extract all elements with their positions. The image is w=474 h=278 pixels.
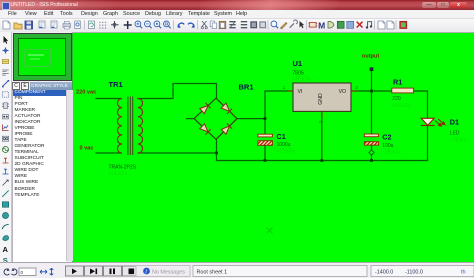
wire C2 branch — [371, 91, 373, 161]
voltage regulator U1 body — [293, 83, 351, 111]
wire U1 GND pin to rail — [321, 117, 323, 161]
toolbar — [0, 19, 474, 33]
svg-text:TR1: TR1 — [109, 80, 123, 89]
sheet marker x — [267, 228, 273, 234]
svg-text:output: output — [362, 54, 380, 60]
node junction C1 top — [264, 117, 267, 120]
svg-text:1000u: 1000u — [277, 142, 291, 148]
svg-text:BR1: BR1 — [239, 82, 254, 91]
svg-text:220 vac: 220 vac — [76, 90, 96, 96]
svg-text:TRAN-2P2S: TRAN-2P2S — [109, 165, 137, 171]
menu bar — [0, 10, 474, 19]
svg-text:No Messages: No Messages — [152, 270, 185, 276]
svg-text:R1: R1 — [393, 77, 402, 86]
svg-text:LED: LED — [450, 130, 460, 136]
wire output branch — [371, 71, 373, 91]
svg-text:C2: C2 — [382, 132, 391, 141]
svg-text:GND: GND — [318, 93, 324, 105]
node junction output / C2 — [370, 90, 373, 93]
svg-text:<TEXT>: <TEXT> — [292, 77, 311, 83]
resistor R1 — [392, 88, 414, 93]
title bar — [0, 0, 474, 10]
status bar — [0, 262, 474, 278]
svg-text:D1: D1 — [450, 118, 459, 127]
pin stub U1 GND — [321, 112, 323, 117]
pin stub U1 VI — [288, 90, 293, 92]
wire C1 node up to U1 VI — [265, 91, 288, 119]
svg-text:<TEXT>: <TEXT> — [277, 148, 296, 154]
node junction U1 GND rail — [320, 159, 323, 162]
terminal output marker — [370, 67, 374, 71]
wire ground rail — [217, 160, 428, 162]
svg-text:<TEXT>: <TEXT> — [382, 149, 401, 155]
svg-text:1: 1 — [283, 85, 286, 90]
svg-text:2: 2 — [319, 120, 324, 123]
svg-text:220: 220 — [392, 96, 401, 102]
svg-text:3: 3 — [355, 85, 358, 90]
transformer TR1 — [117, 97, 142, 156]
svg-text:VO: VO — [339, 89, 347, 95]
capacitor C2 — [364, 134, 378, 145]
capacitor C1 — [258, 134, 273, 145]
svg-text:<TEXT>: <TEXT> — [392, 103, 411, 109]
svg-text:100u: 100u — [382, 143, 393, 149]
svg-text:C1: C1 — [277, 132, 286, 141]
svg-text:<TEXT>: <TEXT> — [450, 137, 469, 143]
wire bridge left stub — [187, 118, 195, 120]
wire bridge right to C1 node — [238, 118, 266, 120]
node junction transformer bottom / bridge — [215, 152, 218, 155]
wire 220vac lead — [96, 98, 121, 100]
node junction C1 bottom — [264, 159, 267, 162]
diode BR1 bottom-right — [221, 123, 232, 134]
diode BR1 top-left — [200, 103, 211, 114]
left panel — [12, 32, 72, 262]
svg-text:U1: U1 — [293, 59, 303, 68]
LED D1 — [421, 118, 445, 126]
svg-text:A: A — [3, 245, 9, 254]
wire U1 VO to R1 — [356, 90, 392, 92]
node junction C2 bottom — [370, 159, 373, 162]
canvas — [73, 32, 474, 262]
wire 0vac lead — [96, 152, 121, 154]
svg-text:0: 0 — [21, 270, 24, 276]
wire secondary bottom — [138, 152, 217, 154]
wire secondary top to bridge top — [138, 84, 217, 99]
svg-text:M: M — [318, 21, 325, 31]
bridge rectifier BR1 body — [194, 98, 237, 139]
diode BR1 top-right — [221, 103, 232, 114]
wire bridge bottom to ground rail — [216, 140, 218, 161]
wire LED to rail — [427, 126, 429, 161]
left tool strip — [0, 32, 12, 262]
svg-text:<TEXT>: <TEXT> — [109, 171, 128, 177]
svg-text:VI: VI — [298, 89, 303, 95]
svg-text:0 vac: 0 vac — [80, 146, 94, 152]
svg-text:th: th — [461, 270, 466, 276]
wire R1 to LED corner — [414, 91, 428, 118]
diode BR1 bottom-left — [200, 124, 211, 135]
origin marker diamond — [369, 150, 374, 155]
wire C1 branch — [264, 119, 266, 161]
svg-text:Root sheet 1: Root sheet 1 — [197, 270, 228, 276]
svg-text:-1400.0: -1400.0 — [375, 270, 393, 276]
svg-text:-1100.0: -1100.0 — [405, 270, 423, 276]
pin stub U1 VO — [351, 90, 356, 92]
